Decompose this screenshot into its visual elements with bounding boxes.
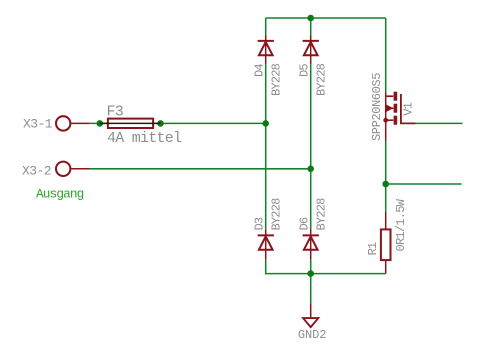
svg-text:V1: V1 bbox=[402, 102, 416, 115]
wire D6 bottom bbox=[310, 259, 312, 273]
junction dot source node bbox=[382, 181, 389, 188]
junction dot X3-2 net at D5 column bbox=[307, 166, 314, 173]
diode D4 bbox=[258, 35, 274, 64]
diode D6 bbox=[303, 229, 319, 259]
wire source column and source row to right edge bbox=[386, 141, 462, 212]
wire D4 column upper bbox=[265, 18, 267, 35]
middle stub bbox=[392, 107, 393, 109]
top stub bbox=[386, 95, 394, 97]
connector pin X3-1 bbox=[56, 116, 90, 130]
svg-text:BY228: BY228 bbox=[314, 198, 328, 231]
fuse F3 bbox=[100, 119, 161, 128]
svg-text:BY228: BY228 bbox=[269, 198, 283, 231]
junction dot right of fuse bbox=[157, 120, 164, 127]
mosfet V1 bbox=[383, 92, 415, 141]
diode D3 bbox=[258, 229, 274, 259]
wire X3-2 net to D5 column bbox=[90, 168, 311, 170]
junction dot fuse net at D4 column bbox=[262, 120, 269, 127]
wire gate net to right edge bbox=[416, 122, 463, 124]
wire D5 column mid (D5 bottom to D6 top) bbox=[310, 64, 312, 229]
svg-text:X3-2: X3-2 bbox=[22, 163, 51, 178]
svg-text:F3: F3 bbox=[107, 103, 124, 120]
svg-text:BY228: BY228 bbox=[269, 63, 283, 96]
svg-text:SPP20N60S5: SPP20N60S5 bbox=[370, 73, 384, 141]
svg-text:D4: D4 bbox=[252, 64, 266, 77]
body arrow bbox=[386, 105, 392, 112]
middle plate bbox=[394, 104, 398, 113]
svg-text:0R1/1.5W: 0R1/1.5W bbox=[394, 198, 408, 251]
wire D5 column upper bbox=[310, 18, 312, 35]
wire GND stem bbox=[310, 274, 312, 304]
svg-text:D3: D3 bbox=[252, 217, 266, 230]
svg-text:R1: R1 bbox=[366, 242, 380, 255]
wire D3 bottom to bottom bus bbox=[266, 259, 386, 273]
connector pin X3-2 bbox=[56, 162, 90, 176]
svg-text:GND2: GND2 bbox=[298, 328, 326, 342]
junction dot left of fuse bbox=[97, 120, 104, 127]
left vertical source/body line bbox=[385, 96, 387, 141]
wire top bus from D4 col to MOSFET col bbox=[266, 17, 386, 19]
drain lead bbox=[385, 93, 387, 97]
bottom stub bbox=[386, 119, 394, 121]
svg-text:X3-1: X3-1 bbox=[23, 117, 53, 132]
diode D5 bbox=[303, 35, 319, 64]
ground GND2 bbox=[303, 304, 318, 328]
svg-text:D6: D6 bbox=[297, 217, 311, 230]
bottom plate bbox=[394, 116, 398, 125]
wire D4 column mid (D4 bottom to D3 top) bbox=[265, 64, 267, 229]
svg-text:Ausgang: Ausgang bbox=[36, 186, 84, 201]
resistor R1 bbox=[381, 212, 391, 274]
internal junction dot bbox=[383, 118, 388, 123]
junction dot bottom bus at D6 column bbox=[307, 270, 314, 277]
wire MOSFET drain bbox=[385, 18, 387, 93]
svg-text:BY228: BY228 bbox=[314, 63, 328, 96]
svg-text:D5: D5 bbox=[297, 64, 311, 77]
wire net from fuse to D4 column bbox=[90, 122, 266, 124]
svg-text:4A mittel: 4A mittel bbox=[107, 130, 182, 147]
top plate bbox=[394, 92, 398, 101]
junction dot top at D5 bbox=[307, 15, 314, 22]
gate bar and gate lead bbox=[401, 94, 416, 123]
